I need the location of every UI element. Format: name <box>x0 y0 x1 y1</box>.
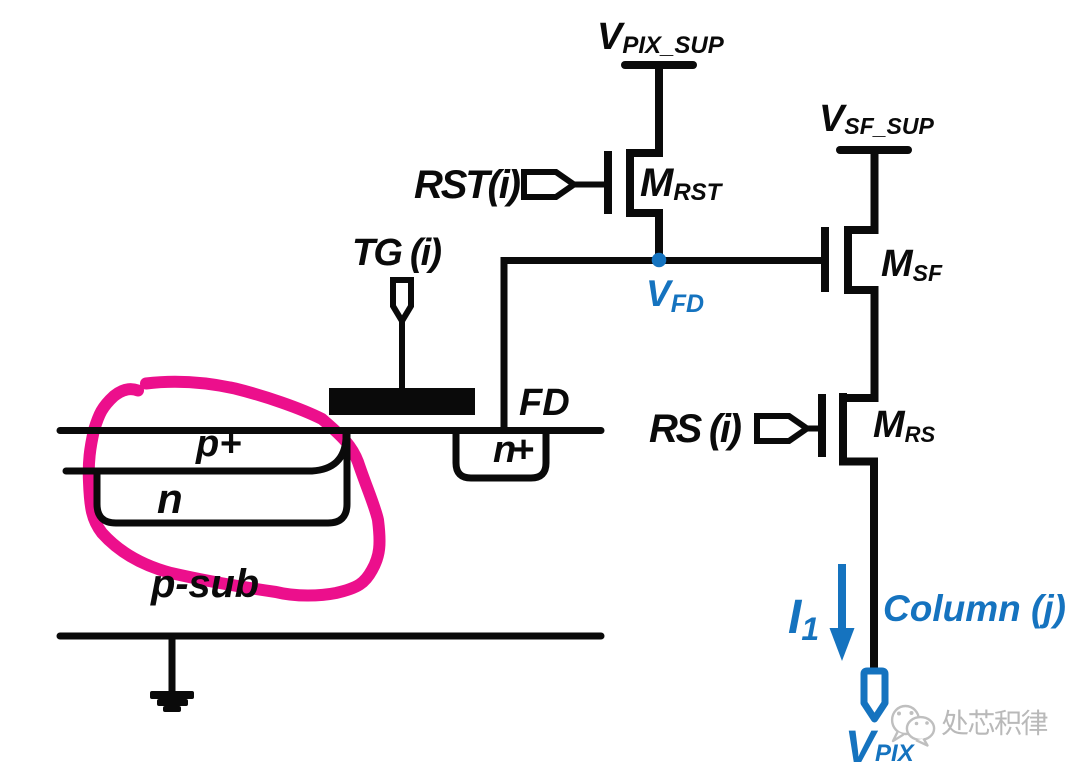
svg-text:VSF_SUP: VSF_SUP <box>819 98 934 140</box>
svg-text:RST(i): RST(i) <box>414 163 521 207</box>
svg-text:MRST: MRST <box>640 161 724 206</box>
TG gate electrode <box>329 388 475 415</box>
svg-text:VFD: VFD <box>646 273 704 318</box>
substrate bottom line <box>60 633 601 640</box>
svg-text:FD: FD <box>519 382 570 424</box>
svg-text:RS (i): RS (i) <box>649 407 742 451</box>
V_PIX_SUP supply bar <box>625 61 693 69</box>
transistor M_SF with drain wire from supply <box>825 146 875 670</box>
svg-text:Column (j): Column (j) <box>883 588 1066 629</box>
FD wire up to VFD node and across to SF gate <box>504 261 822 431</box>
p+ region bottom boundary <box>66 434 346 471</box>
TG port symbol <box>393 280 411 321</box>
svg-text:n: n <box>157 475 183 522</box>
svg-text:TG (i): TG (i) <box>352 232 442 274</box>
node V_FD dot <box>652 253 667 268</box>
transistor M_RST with drain wire from supply <box>575 61 659 260</box>
watermark wechat logo <box>892 706 934 746</box>
TG wire <box>399 318 405 390</box>
svg-text:MRS: MRS <box>873 404 936 447</box>
surface line (silicon top) <box>60 427 601 434</box>
svg-text:I1: I1 <box>788 591 819 647</box>
FD n+ region <box>456 430 546 478</box>
RS(i) port symbol <box>757 416 807 441</box>
watermark text 处芯积律 <box>944 711 1049 737</box>
svg-text:p-sub: p-sub <box>150 562 259 606</box>
RST(i) port symbol <box>524 172 574 197</box>
V_PIX port pin <box>864 671 885 719</box>
svg-text:MSF: MSF <box>881 243 943 286</box>
magenta highlight loop around pinned photodiode <box>89 382 380 596</box>
I1 current arrow <box>830 564 855 661</box>
svg-text:VPIX_SUP: VPIX_SUP <box>597 16 725 59</box>
V_SF_SUP supply bar <box>840 146 908 154</box>
svg-text:n+: n+ <box>493 429 534 471</box>
transistor M_RS <box>806 393 843 465</box>
ground <box>150 636 194 712</box>
svg-text:p+: p+ <box>195 423 241 465</box>
n region outline <box>97 434 347 523</box>
